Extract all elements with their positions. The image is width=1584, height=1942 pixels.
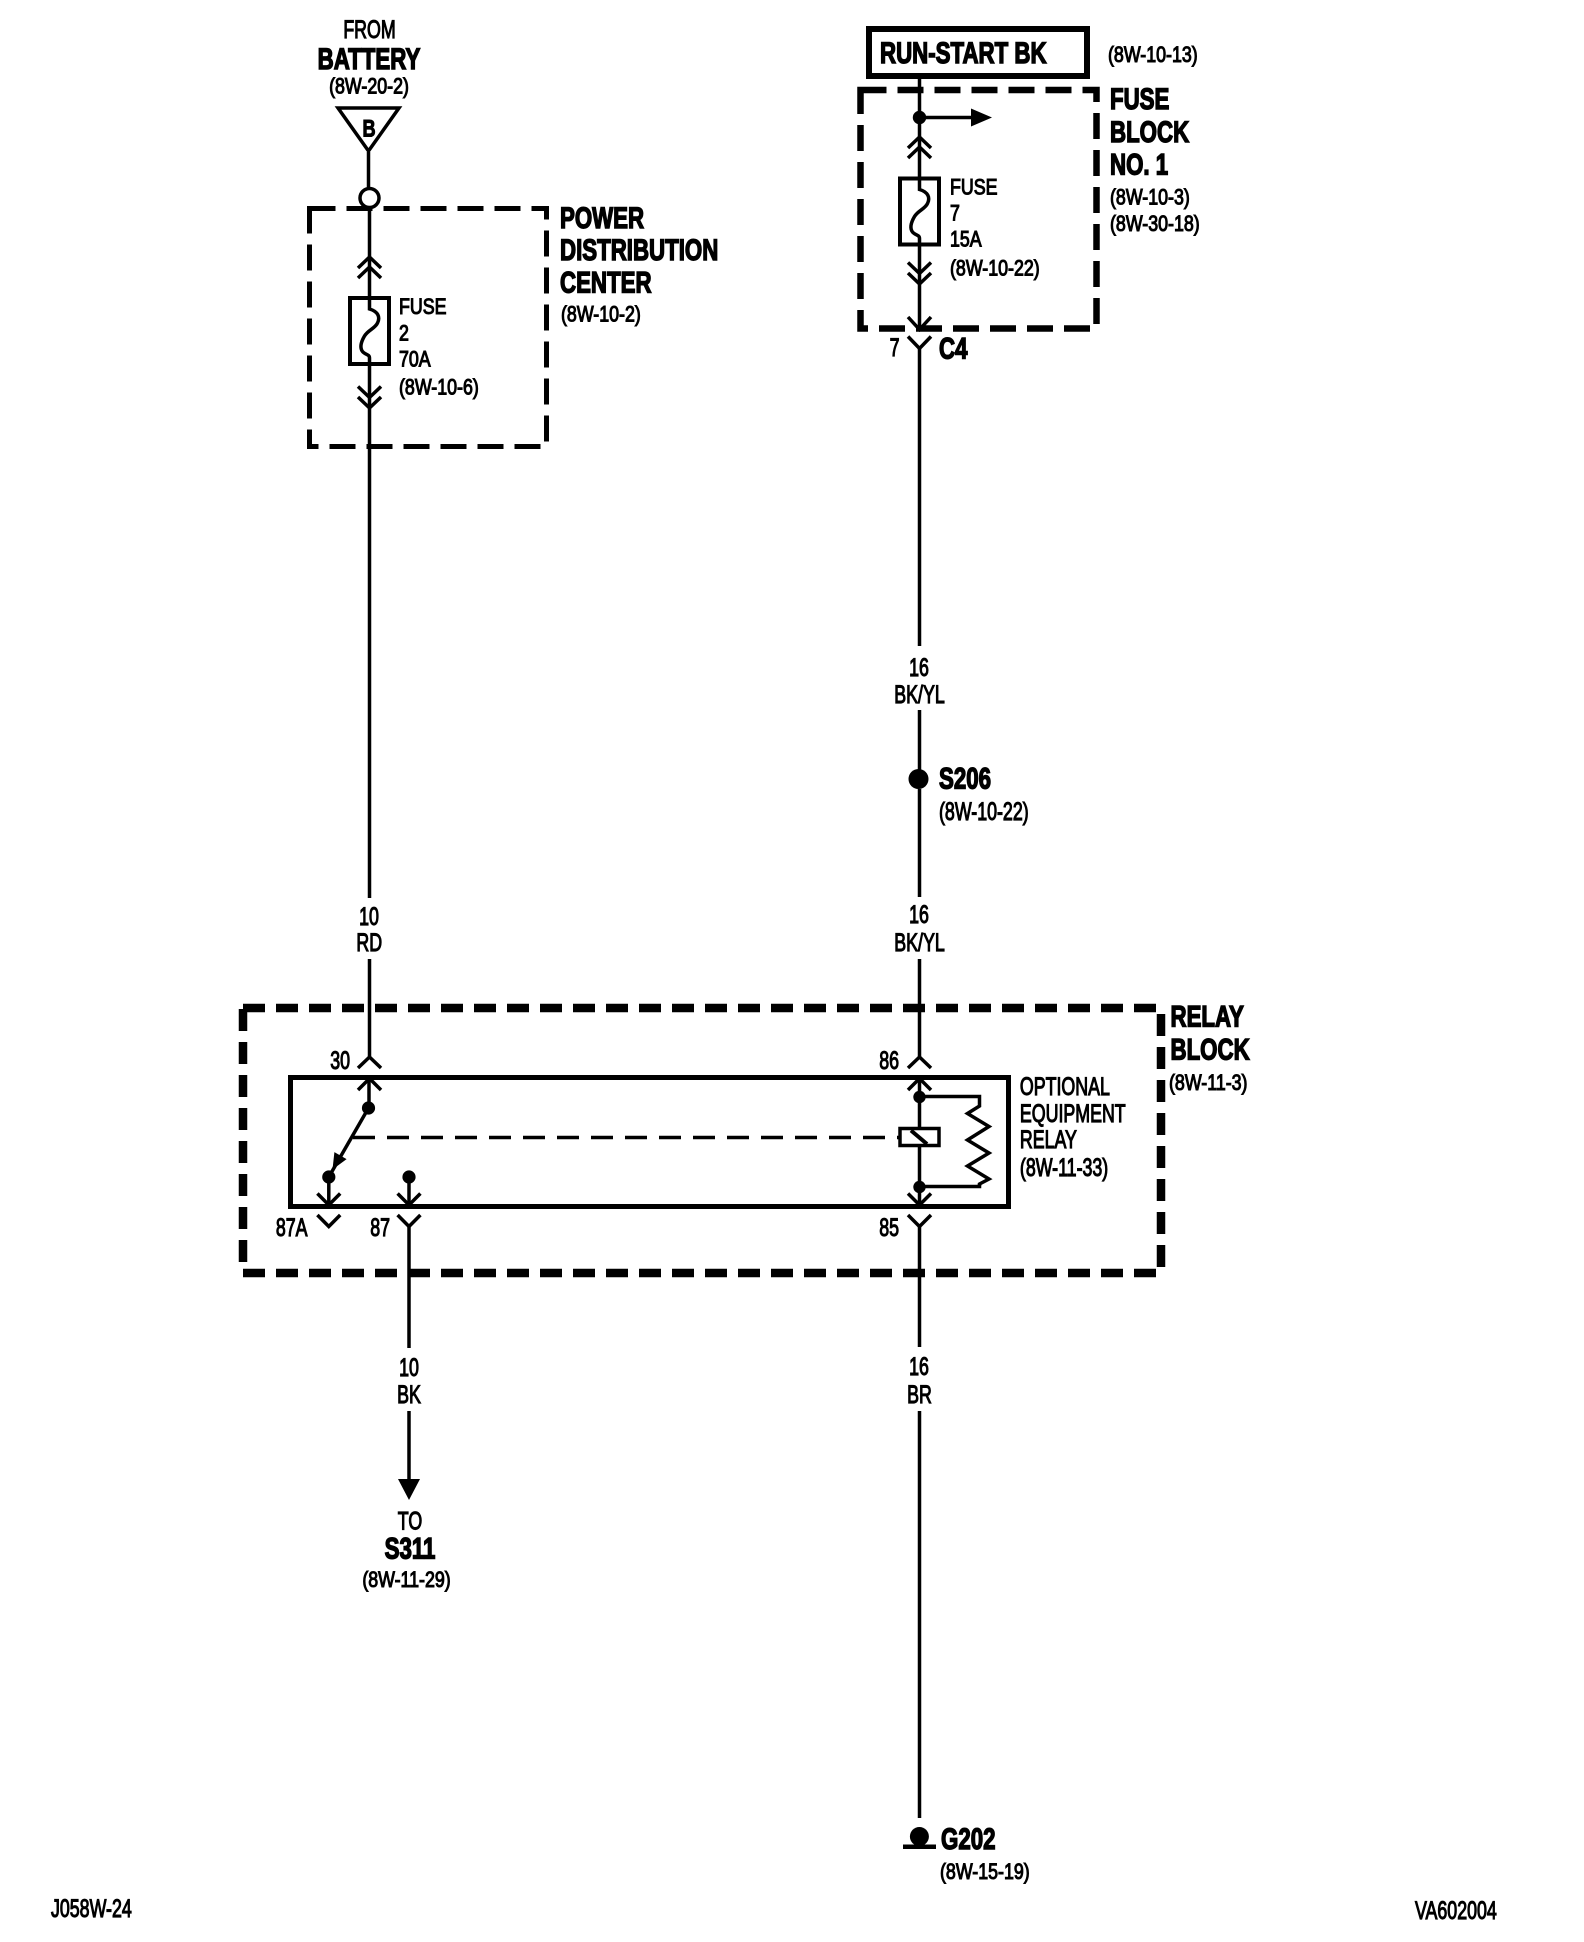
svg-text:S311: S311 xyxy=(385,1531,436,1565)
fuse block no.1 dashed box xyxy=(861,90,1097,329)
relay coil element box xyxy=(900,1129,939,1146)
svg-text:VA602004: VA602004 xyxy=(1415,1896,1497,1925)
wire pin 85 down to label 16 BR xyxy=(918,1227,922,1348)
svg-text:EQUIPMENT: EQUIPMENT xyxy=(1020,1099,1126,1128)
svg-text:(8W-11-3): (8W-11-3) xyxy=(1169,1071,1247,1095)
optional equipment relay label xyxy=(1020,1072,1126,1182)
pin 87 stem and arrowhead xyxy=(398,1177,421,1205)
wire fuse F7 to connector C4 xyxy=(918,245,922,330)
wire S206 to label 16 BK/YL xyxy=(918,789,922,897)
optional equipment relay box U1 xyxy=(291,1078,1009,1207)
pin 30 connector chevron outside xyxy=(358,1057,381,1068)
battery feed triangle B xyxy=(338,108,399,151)
svg-text:(8W-30-18): (8W-30-18) xyxy=(1110,212,1200,236)
svg-text:(8W-10-22): (8W-10-22) xyxy=(950,257,1040,281)
pin 30 connector arrow inside xyxy=(358,1079,381,1104)
fuse F7 xyxy=(900,179,939,245)
wire 10 RD to relay pin 30 xyxy=(368,959,372,1057)
wire label 16 BR xyxy=(907,1352,932,1409)
svg-text:87A: 87A xyxy=(276,1213,308,1242)
eyelet terminal circle xyxy=(360,189,379,208)
pin 85 chevron below box xyxy=(908,1215,931,1227)
svg-text:86: 86 xyxy=(879,1046,899,1075)
wire 10 BK to S311 arrow xyxy=(398,1411,420,1500)
svg-text:(8W-15-19): (8W-15-19) xyxy=(940,1860,1030,1884)
svg-text:C4: C4 xyxy=(939,331,968,365)
svg-text:7: 7 xyxy=(890,333,900,362)
svg-text:15A: 15A xyxy=(950,228,982,252)
power distribution center label xyxy=(560,201,718,327)
svg-text:2: 2 xyxy=(399,322,409,346)
wire eyelet to fuse F2 xyxy=(368,209,372,296)
relay block dashed box xyxy=(243,1008,1161,1273)
svg-text:CENTER: CENTER xyxy=(560,266,652,300)
svg-text:BK/YL: BK/YL xyxy=(894,680,944,709)
power distribution center dashed box xyxy=(310,209,547,447)
svg-text:FUSE: FUSE xyxy=(950,176,997,200)
pin 86 connector chevron outside xyxy=(908,1057,931,1068)
wire label 16 BK/YL upper xyxy=(894,653,944,709)
off-page node TO S311 xyxy=(362,1506,450,1592)
svg-text:RD: RD xyxy=(356,928,382,957)
svg-text:BLOCK: BLOCK xyxy=(1171,1032,1250,1066)
connector chevrons above fuse F2 xyxy=(358,257,381,278)
pin 87A chevron below box xyxy=(317,1215,340,1227)
svg-text:(8W-10-3): (8W-10-3) xyxy=(1110,186,1190,210)
fuse F2 value labels xyxy=(399,295,479,400)
svg-text:16: 16 xyxy=(909,900,929,929)
pin 87 chevron below box xyxy=(398,1215,421,1227)
svg-text:70A: 70A xyxy=(399,348,431,372)
svg-text:(8W-11-33): (8W-11-33) xyxy=(1020,1153,1108,1182)
svg-text:NO. 1: NO. 1 xyxy=(1110,147,1168,181)
wire fuse F2 to label 10 RD xyxy=(368,364,372,898)
wire RUN-START box to junction xyxy=(918,79,922,118)
svg-text:DISTRIBUTION: DISTRIBUTION xyxy=(560,233,718,267)
pin 86 connector arrow inside xyxy=(908,1079,931,1093)
node pin 87 xyxy=(402,1170,415,1183)
node pin 87A xyxy=(322,1170,335,1183)
svg-text:(8W-10-22): (8W-10-22) xyxy=(939,797,1029,826)
svg-text:(8W-20-2): (8W-20-2) xyxy=(329,75,409,99)
svg-text:BK/YL: BK/YL xyxy=(894,928,944,957)
node FROM BATTERY label xyxy=(318,15,421,99)
wire 16 BR to ground xyxy=(918,1411,922,1818)
pin 85 stem and arrowhead xyxy=(908,1187,931,1205)
ground G202 xyxy=(903,1822,1030,1885)
wire to splice S206 xyxy=(918,710,922,770)
wire triangle to eyelet xyxy=(367,152,371,188)
wire label 10 RD xyxy=(356,902,382,957)
pin 87A stem and arrowhead xyxy=(317,1177,340,1205)
fuse block no.1 label xyxy=(1110,82,1200,237)
wire label 10 BK xyxy=(397,1353,421,1409)
svg-text:(8W-10-13): (8W-10-13) xyxy=(1108,43,1198,67)
svg-text:87: 87 xyxy=(370,1213,390,1242)
wire coil element to bottom node xyxy=(918,1147,922,1188)
wire junction to fuse F7 xyxy=(918,118,922,177)
svg-text:(8W-10-6): (8W-10-6) xyxy=(399,376,479,400)
svg-text:B: B xyxy=(362,115,375,142)
connector chevrons above fuse F7 xyxy=(908,137,931,158)
svg-text:16: 16 xyxy=(909,653,929,682)
svg-text:(8W-10-2): (8W-10-2) xyxy=(561,303,641,327)
connector chevrons below fuse F7 xyxy=(908,263,931,285)
connector C4 arrowhead at block edge xyxy=(908,317,931,330)
switch common node pin 30 xyxy=(362,1101,375,1114)
svg-text:(8W-11-29): (8W-11-29) xyxy=(362,1568,450,1592)
dashed actuation line xyxy=(353,1136,899,1140)
svg-text:16: 16 xyxy=(909,1352,929,1381)
RUN-START BK box xyxy=(869,29,1087,76)
relay block label xyxy=(1169,999,1250,1095)
wire pin 87 down to label 10 BK xyxy=(407,1227,411,1349)
connector C4 chevron below edge xyxy=(908,337,931,349)
wire 16 BK/YL to relay pin 86 xyxy=(918,959,922,1057)
splice S206 xyxy=(909,761,1029,826)
svg-text:FROM: FROM xyxy=(343,15,395,44)
coil bottom node pin 85 xyxy=(913,1181,925,1193)
svg-text:OPTIONAL: OPTIONAL xyxy=(1020,1072,1110,1101)
svg-text:85: 85 xyxy=(879,1213,899,1242)
svg-text:J058W-24: J058W-24 xyxy=(51,1894,132,1923)
switch arm with arrowhead xyxy=(329,1108,369,1177)
svg-text:BK: BK xyxy=(397,1380,421,1409)
svg-text:10: 10 xyxy=(359,902,379,931)
svg-text:G202: G202 xyxy=(941,1822,995,1856)
relay coil branch resistor xyxy=(920,1097,990,1187)
svg-text:30: 30 xyxy=(330,1046,350,1075)
svg-text:S206: S206 xyxy=(939,761,991,795)
svg-text:7: 7 xyxy=(950,202,960,226)
wire C4 to label 16 BK/YL xyxy=(918,349,922,647)
wire coil node to coil element xyxy=(918,1097,922,1130)
coil top node xyxy=(913,1091,925,1103)
wire label 16 BK/YL lower xyxy=(894,900,944,957)
fuse F2 xyxy=(350,298,389,364)
svg-text:BR: BR xyxy=(907,1380,932,1409)
svg-text:FUSE: FUSE xyxy=(1110,82,1169,116)
connector chevrons below fuse F2 xyxy=(358,387,381,409)
svg-text:RUN-START BK: RUN-START BK xyxy=(880,36,1047,70)
svg-text:RELAY: RELAY xyxy=(1020,1125,1077,1154)
svg-text:POWER: POWER xyxy=(560,201,644,235)
svg-text:FUSE: FUSE xyxy=(399,295,446,319)
svg-text:10: 10 xyxy=(399,1353,419,1382)
svg-text:BATTERY: BATTERY xyxy=(318,42,421,76)
fuse F7 value labels xyxy=(950,176,1040,281)
svg-text:RELAY: RELAY xyxy=(1171,999,1244,1033)
svg-text:BLOCK: BLOCK xyxy=(1110,115,1189,149)
junction node with branch arrow xyxy=(913,109,992,127)
